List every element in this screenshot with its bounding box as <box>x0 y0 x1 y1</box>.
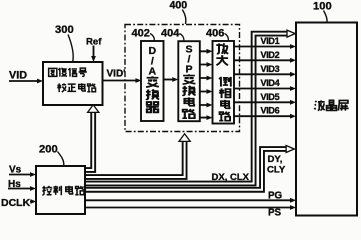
svg-text:VID': VID' <box>107 69 126 80</box>
wire DCLK input <box>30 201 33 203</box>
wire VID' 300-to-402 <box>103 80 138 82</box>
svg-text:400: 400 <box>170 0 188 12</box>
block 300 image signal correction circuit <box>43 62 103 105</box>
wire VID input <box>9 80 39 82</box>
open arrow right into block 100 (DY CLY) <box>286 146 294 153</box>
svg-text:300: 300 <box>55 24 74 36</box>
svg-text:Hs: Hs <box>8 179 21 190</box>
block 100 LCD panel <box>296 23 357 216</box>
svg-text:PG: PG <box>268 191 283 202</box>
svg-text:406: 406 <box>206 28 224 40</box>
svg-text:404: 404 <box>161 28 180 40</box>
wire Hs input <box>8 188 32 190</box>
svg-text:A: A <box>149 66 157 78</box>
wire PG 200-to-100 <box>85 199 292 201</box>
svg-text:VID4: VID4 <box>261 78 280 88</box>
block 200 control circuit <box>36 166 85 214</box>
block 402 D/A converter <box>141 41 164 121</box>
leader 404 <box>180 34 185 42</box>
wire 402-to-404 <box>164 79 175 81</box>
open arrow up into block 300 <box>88 105 99 113</box>
wire Vs input <box>9 174 32 176</box>
open arrow up into box 400 / block 404 <box>179 134 190 142</box>
leader 400 <box>182 10 186 25</box>
svg-text:VID6: VID6 <box>261 106 280 116</box>
leader 406 <box>225 34 229 42</box>
dash-dot box 400 <box>125 25 240 132</box>
wire Ref input <box>93 46 95 57</box>
bus 200-to-300 (double line) <box>83 112 93 170</box>
svg-text:Vs: Vs <box>9 165 22 176</box>
svg-text:DY,: DY, <box>268 154 283 165</box>
leader 100 <box>324 11 328 23</box>
bus 200-to-404 (double line) <box>83 141 185 177</box>
svg-text:100: 100 <box>313 1 332 13</box>
svg-text:402: 402 <box>132 28 150 40</box>
svg-text:VID: VID <box>9 70 27 82</box>
svg-text:PS: PS <box>268 208 282 219</box>
svg-text:DCLK: DCLK <box>1 197 31 209</box>
wire PS 200-to-100 <box>85 207 292 209</box>
block 406 amplify invert circuit <box>213 41 235 124</box>
svg-text:P: P <box>185 64 192 76</box>
svg-text:VID2: VID2 <box>261 50 280 60</box>
leader 402 <box>150 34 155 42</box>
svg-text:CLY: CLY <box>267 165 286 176</box>
wires 404-to-406 (6 lines) <box>200 49 213 120</box>
svg-text:DX, CLX: DX, CLX <box>212 172 250 183</box>
block 404 S/P conversion circuit <box>178 41 200 121</box>
svg-text:VID5: VID5 <box>261 92 280 102</box>
svg-text:VID1: VID1 <box>261 36 280 46</box>
leader 200 <box>58 152 64 166</box>
bus DY CLY 200-to-100 (double line) <box>83 149 286 190</box>
svg-text:Ref: Ref <box>86 37 102 48</box>
bus DX CLX 200-to-100 (double line) <box>83 34 288 184</box>
leader 300 <box>68 35 73 62</box>
svg-text:VID3: VID3 <box>261 64 280 74</box>
svg-text:200: 200 <box>39 144 58 156</box>
wires VID1..VID6 406-to-100 <box>234 44 296 119</box>
open arrow right into block 100 (top) <box>287 30 295 37</box>
